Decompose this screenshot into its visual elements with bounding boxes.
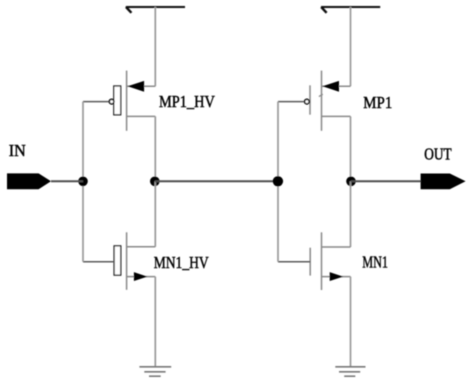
node: input dot [78,177,88,187]
wire: right gate bus [277,102,279,262]
node: first inverter output dot [150,177,160,187]
MP1 gate line [309,85,311,114]
wire: MN1_HV drain stub [127,246,156,248]
wire: MN1 gate wire [278,261,310,263]
ground right [335,367,365,376]
svg-text:MN1: MN1 [362,252,388,271]
wire: MN1 drain stub [322,246,351,248]
wire: MP1_HV gate wire [83,101,109,103]
MN1_HV channel [126,232,128,289]
MP1 source arrow [323,81,340,92]
node: output dot [346,177,356,187]
MN1_HV source arrow [134,272,147,281]
VDD rail right [321,7,380,13]
nmos MN1_HV [83,232,155,289]
wire: MP1 gate wire [278,101,304,103]
wire: MP1_HV drain to node [154,116,156,181]
wire: node to MN1_HV drain [154,181,156,247]
wire: MP1 source stub [322,85,351,87]
MP1_HV gate bubble [109,99,114,104]
MN1 channel [321,232,323,290]
port OUT [421,174,466,190]
nmos MN1 [278,232,351,290]
svg-text:MP1: MP1 [363,93,392,112]
pmos MP1_HV [83,71,155,131]
wire: MN1 source to ground [350,277,352,367]
wire: MP1_HV source stub [127,85,156,87]
wire: node to MN1 drain [350,181,352,247]
wire: IN to input dot [51,180,83,182]
MP1_HV source arrow [128,81,145,92]
MP1 channel [321,71,323,131]
MN1_HV gate rect [114,246,121,275]
ground left [139,367,171,376]
wire: MP1 drain to node [350,116,352,181]
svg-text:MP1_HV: MP1_HV [159,92,215,111]
wire: right supply vertical [350,7,352,86]
svg-text:OUT: OUT [424,145,452,164]
MP1_HV channel [126,71,128,131]
MP1 gate bubble [305,99,310,104]
wire: MN1 source stub [322,276,351,278]
pmos MP1 [278,71,351,131]
svg-text:IN: IN [9,141,26,160]
wire: MP1 drain stub [322,115,351,117]
MP1 channel tick [319,94,323,96]
MN1 gate line [309,248,311,276]
wire: output node to OUT [351,180,421,182]
wire: left supply vertical [154,7,156,86]
svg-text:MN1_HV: MN1_HV [154,253,210,272]
wire: left gate bus [82,102,84,262]
MN1 source arrow [330,272,343,281]
wire: MN1_HV source stub [127,276,156,278]
wire: MN1_HV source to ground [154,277,156,367]
port IN [7,173,51,189]
node: stage2 input dot [273,176,283,186]
wire: MP1_HV drain stub [127,115,156,117]
wire: MN1_HV gate wire [83,261,114,263]
VDD rail left [126,7,185,13]
wire: stage1 output to stage2 input [155,180,278,182]
MP1_HV gate rect [114,86,121,115]
